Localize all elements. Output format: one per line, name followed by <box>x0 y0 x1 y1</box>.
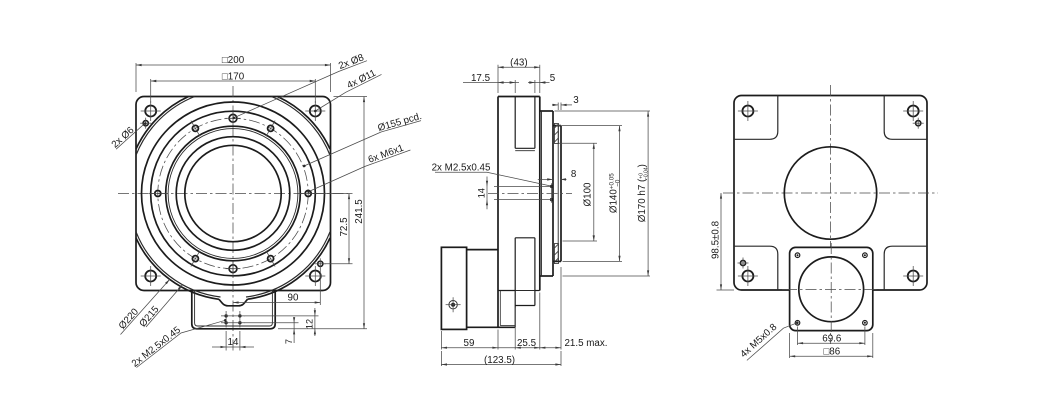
front view: square mounting flange plate <box>136 97 331 291</box>
tapped hole M6 #5 on p.c.d. <box>192 125 198 131</box>
label dia 220 with leader <box>121 279 170 334</box>
dimension 25.5 <box>514 308 516 350</box>
dimension 3 <box>557 103 559 111</box>
output flange dia 140 circle <box>166 126 301 261</box>
corner pad top-left <box>734 96 778 140</box>
pin hole dia 6 #2 (rear) <box>740 260 745 265</box>
tapped hole M6 #1 on p.c.d. <box>305 191 311 197</box>
rear vertical centerline <box>830 85 832 344</box>
svg-text:69.6: 69.6 <box>822 334 842 345</box>
boss flange face <box>552 111 554 276</box>
mounting hole dia 11 #2 <box>310 106 321 117</box>
cable notch in body bottom edge <box>219 299 248 306</box>
dimension 8 <box>538 178 553 180</box>
dimension square 170 <box>150 79 152 103</box>
svg-text:21.5 max.: 21.5 max. <box>564 338 607 349</box>
dimension 241.5 overall height <box>334 96 368 98</box>
mounting hole dia 11 #3 (rear) <box>742 271 753 282</box>
dimension (123.5) <box>440 351 442 366</box>
connector housing tab outer wall <box>192 291 275 329</box>
body dia 215 arc, bottom right sweep <box>246 232 330 297</box>
dimension dia 140 +0.05/0 <box>556 125 622 127</box>
connector screw hole M2.5 #2 <box>238 314 241 317</box>
connector mounting hole M5 #1 <box>795 253 800 258</box>
reduced neck section, bottom rectangle <box>515 237 535 239</box>
mounting hole dia 11 #2 (rear) <box>908 106 919 117</box>
connector flange square 86 <box>790 247 873 330</box>
dimension square 86 <box>789 333 791 358</box>
rear horizontal centerline <box>723 192 938 194</box>
svg-text:□86: □86 <box>823 347 840 358</box>
label 4x dia 11 with leader <box>315 74 381 111</box>
label 2x dia 6 with leader <box>116 125 144 150</box>
spigot edge detail top (hatched) <box>555 123 559 143</box>
body top edge <box>498 96 540 98</box>
bolt circle dia 155 p.c.d. (dash-dot) <box>158 118 308 268</box>
svg-text:72.5: 72.5 <box>339 217 350 237</box>
label dia 155 p.c.d. with leader <box>304 121 421 166</box>
corner pad bottom-right <box>884 246 927 290</box>
dimension 14 (hole spacing) <box>486 177 488 210</box>
body dia 220 arc, top-right corner <box>278 97 331 150</box>
pin hole dia 8 #1 on p.c.d. <box>229 265 237 273</box>
label 2x M2.5x0.45 with leader <box>137 321 225 368</box>
center bore dia 100 circle <box>185 145 281 241</box>
body dia 220 arc, top-left corner <box>136 97 189 150</box>
mounting hole dia 11 #1 (rear) <box>742 106 753 117</box>
body dia 220 arc, bottom left sweep <box>136 238 219 299</box>
svg-text:5: 5 <box>550 73 556 84</box>
label 2x M2.5x0.45 with leader <box>435 171 487 173</box>
body dia 215 arc, top-right corner <box>271 97 330 156</box>
svg-text:(123.5): (123.5) <box>484 355 515 366</box>
corner pad bottom-left <box>734 246 778 290</box>
pin hole dia 6 #1 (rear) <box>916 121 921 126</box>
dimension 90 <box>319 269 321 306</box>
dimension (43) <box>497 65 499 93</box>
dimension 5 <box>534 80 536 93</box>
svg-text:7: 7 <box>284 339 294 344</box>
dimension 59 <box>440 331 442 350</box>
dimension 69.6 <box>797 327 799 346</box>
face hole M2.5 lower <box>550 198 553 201</box>
output boss dia 170 top/bottom <box>540 110 553 112</box>
corner pad top-right <box>884 96 927 140</box>
svg-text:14: 14 <box>476 188 486 198</box>
dimension 21.5 max. <box>560 267 562 350</box>
connector horizontal centerline <box>782 289 880 291</box>
body dia 215 arc, bottom left sweep <box>136 232 221 297</box>
connector mounting hole M5 #4 <box>863 321 868 326</box>
outer flange dia 190 circle <box>142 102 325 285</box>
horizontal centerline <box>118 193 348 195</box>
rear view: square plate <box>734 96 927 291</box>
connector circle <box>799 257 864 322</box>
pin hole dia 6 #2 <box>318 261 323 266</box>
pin hole dia 8 #2 on p.c.d. <box>229 114 237 122</box>
label 4x M5x0.8 with leader <box>747 323 796 360</box>
side view centerline <box>488 193 572 195</box>
spigot face <box>560 126 562 262</box>
vertical centerline <box>232 86 234 352</box>
dimension 98.5 +-0.8 <box>717 289 735 291</box>
svg-text:17.5: 17.5 <box>471 73 491 84</box>
label dia 215 with leader <box>146 285 183 327</box>
output flange dia 170 circle <box>151 111 316 276</box>
svg-text:25.5: 25.5 <box>517 338 537 349</box>
label 6x M6x1 with leader <box>309 150 411 192</box>
svg-text:8: 8 <box>571 169 577 180</box>
dimension 14 <box>225 331 227 351</box>
dimension 17.5 <box>514 80 516 93</box>
body dia 215 arc, top-left corner <box>136 97 195 156</box>
connector housing tab inner wall <box>195 291 273 327</box>
dimension 72.5 <box>312 193 353 195</box>
spigot dia 140 top/bottom <box>553 125 561 127</box>
pin hole dia 6 #1 <box>143 121 148 126</box>
svg-text:241.5: 241.5 <box>354 199 365 224</box>
dimension square 200 <box>135 63 137 92</box>
connector mounting hole M5 #2 <box>863 253 868 258</box>
svg-text:14: 14 <box>228 337 239 348</box>
svg-text:12: 12 <box>305 319 315 329</box>
svg-text:3: 3 <box>573 95 579 106</box>
connector screw hole M2.5 #3 <box>224 321 227 324</box>
tick lines through connector holes <box>221 315 245 317</box>
svg-text:Ø100: Ø100 <box>583 182 594 207</box>
svg-text:(43): (43) <box>510 58 527 69</box>
label 2x dia 8 with leader <box>234 61 367 118</box>
mounting hole dia 11 #4 <box>310 271 321 282</box>
boss chamfer line <box>541 111 543 276</box>
dimension dia 170 h7 <box>555 110 651 112</box>
body dia 220 arc, bottom right sweep <box>248 238 331 299</box>
body left face <box>497 97 499 328</box>
tapped hole M6 #4 on p.c.d. <box>155 191 161 197</box>
connector mounting hole M5 #3 <box>795 321 800 326</box>
tapped hole M6 #2 on p.c.d. <box>268 256 274 262</box>
chamfer circle <box>168 129 298 259</box>
tapped hole M6 #6 on p.c.d. <box>268 125 274 131</box>
inner step circle <box>176 137 290 251</box>
svg-text:59: 59 <box>464 338 475 349</box>
svg-text:98.5±0.8: 98.5±0.8 <box>711 220 722 259</box>
connector centerlines <box>830 243 832 336</box>
connector screw hole M2.5 #1 <box>224 314 227 317</box>
connector recess floor <box>515 305 535 307</box>
dimension dia 100 <box>559 142 598 144</box>
mounting hole dia 11 #4 (rear) <box>908 271 919 282</box>
reduced neck section, top rectangle <box>514 97 516 149</box>
mounting hole dia 11 #3 <box>145 271 156 282</box>
face hole M2.5 upper <box>550 185 553 188</box>
plate bottom edge segments <box>498 290 515 292</box>
dimension 7 <box>245 322 299 324</box>
grounding screw on connector block <box>449 301 457 309</box>
spigot pilot step line <box>557 126 559 262</box>
svg-text:90: 90 <box>288 293 299 304</box>
svg-text:□200: □200 <box>222 55 245 66</box>
svg-text:2x M2.5x0.45: 2x M2.5x0.45 <box>432 162 491 173</box>
rear cover circle <box>784 147 876 239</box>
connector housing block <box>441 247 466 329</box>
connector tab bottom <box>467 326 516 328</box>
mounting hole dia 11 #1 <box>145 106 156 117</box>
spigot edge detail bottom (hatched) <box>555 244 559 264</box>
dimension 12 <box>245 315 319 317</box>
connector screw hole M2.5 #4 <box>238 321 241 324</box>
svg-text:□170: □170 <box>222 71 245 82</box>
tapped hole M6 #3 on p.c.d. <box>192 256 198 262</box>
mounting plate front face <box>539 97 541 291</box>
housing mid section top edge <box>467 249 498 251</box>
